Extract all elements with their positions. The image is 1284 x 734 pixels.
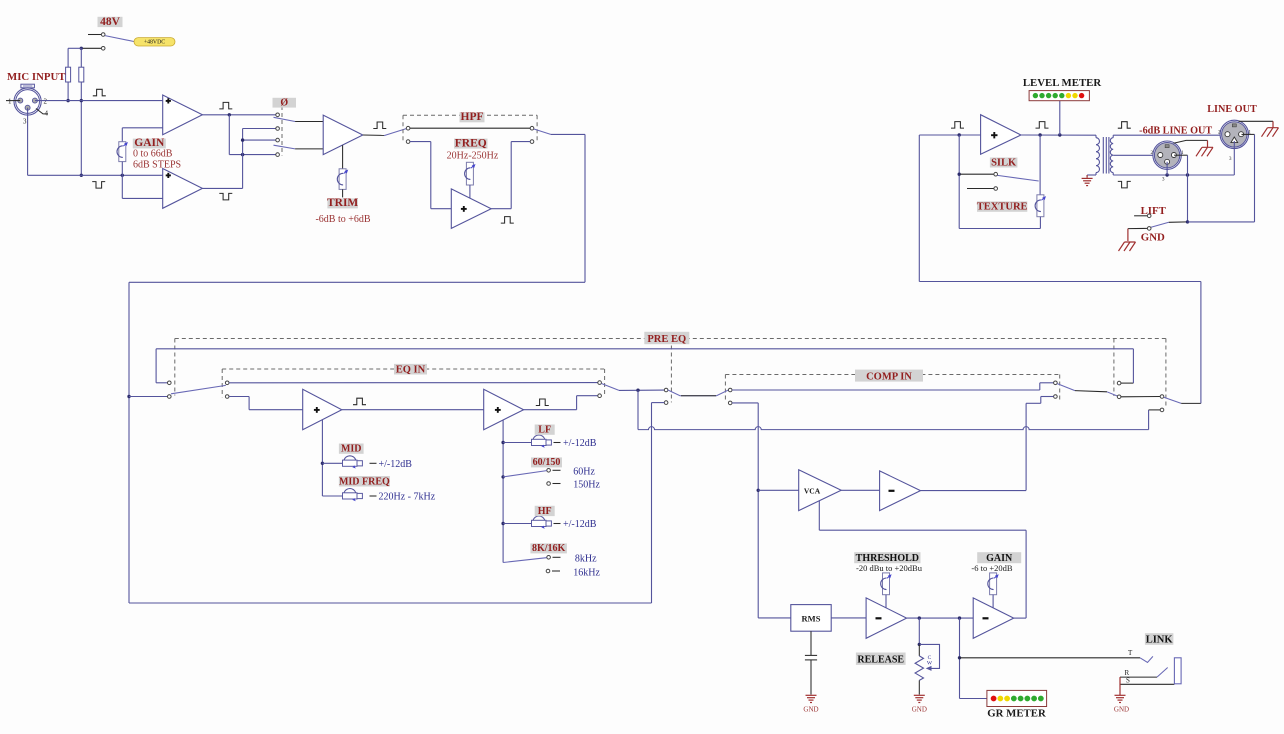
svg-text:150Hz: 150Hz <box>573 480 600 491</box>
svg-text:60/150: 60/150 <box>533 457 561 468</box>
svg-text:LEVEL METER: LEVEL METER <box>1023 77 1102 89</box>
svg-text:-6 to +20dB: -6 to +20dB <box>971 563 1012 573</box>
svg-text:8kHz: 8kHz <box>575 553 597 564</box>
svg-text:RMS: RMS <box>802 613 821 623</box>
svg-text:6dB STEPS: 6dB STEPS <box>133 160 181 171</box>
svg-text:HPF: HPF <box>461 111 484 123</box>
svg-text:TRIM: TRIM <box>327 197 358 209</box>
svg-text:PRE EQ: PRE EQ <box>647 334 686 345</box>
svg-text:-6dB to +6dB: -6dB to +6dB <box>315 214 370 225</box>
svg-text:GR METER: GR METER <box>987 707 1046 719</box>
svg-text:3: 3 <box>23 118 27 126</box>
svg-text:-20 dBu to +20dBu: -20 dBu to +20dBu <box>856 563 923 573</box>
svg-text:LIFT: LIFT <box>1141 205 1167 217</box>
svg-text:48V: 48V <box>100 16 121 28</box>
svg-text:GND: GND <box>912 706 927 714</box>
svg-text:EQ IN: EQ IN <box>396 364 426 375</box>
svg-text:FREQ: FREQ <box>455 137 487 149</box>
svg-text:MIC INPUT: MIC INPUT <box>7 71 66 83</box>
svg-text:+/-12dB: +/-12dB <box>563 438 597 449</box>
svg-text:0 to 66dB: 0 to 66dB <box>133 149 173 160</box>
svg-text:GND: GND <box>1114 706 1129 714</box>
svg-text:+48VDC: +48VDC <box>144 40 165 46</box>
svg-text:60Hz: 60Hz <box>573 466 595 477</box>
svg-text:W: W <box>927 661 933 667</box>
svg-text:RELEASE: RELEASE <box>857 655 904 666</box>
svg-text:-6dB LINE OUT: -6dB LINE OUT <box>1139 125 1212 136</box>
svg-text:GAIN: GAIN <box>134 137 165 149</box>
svg-text:LINK: LINK <box>1146 635 1174 646</box>
svg-text:MID FREQ: MID FREQ <box>339 476 390 487</box>
svg-text:LINE OUT: LINE OUT <box>1207 104 1257 115</box>
svg-text:+/-12dB: +/-12dB <box>563 519 597 530</box>
svg-text:2: 2 <box>44 98 48 106</box>
svg-text:VCA: VCA <box>804 486 821 495</box>
svg-text:16kHz: 16kHz <box>573 567 600 578</box>
svg-text:1: 1 <box>8 98 12 106</box>
svg-text:220Hz - 7kHz: 220Hz - 7kHz <box>379 492 436 503</box>
svg-text:GND: GND <box>1141 232 1165 244</box>
svg-text:HF: HF <box>538 506 552 517</box>
svg-text:LF: LF <box>538 425 551 436</box>
svg-text:20Hz-250Hz: 20Hz-250Hz <box>447 150 499 161</box>
svg-text:S: S <box>1126 677 1130 685</box>
svg-text:SILK: SILK <box>991 157 1017 168</box>
svg-text:COMP IN: COMP IN <box>866 371 912 382</box>
svg-text:GND: GND <box>803 706 818 714</box>
svg-text:T: T <box>1128 649 1133 657</box>
svg-text:TEXTURE: TEXTURE <box>977 202 1028 213</box>
svg-text:MID: MID <box>341 444 362 455</box>
svg-text:+/-12dB: +/-12dB <box>379 459 413 470</box>
svg-text:8K/16K: 8K/16K <box>532 543 566 554</box>
svg-text:Ø: Ø <box>280 97 288 108</box>
